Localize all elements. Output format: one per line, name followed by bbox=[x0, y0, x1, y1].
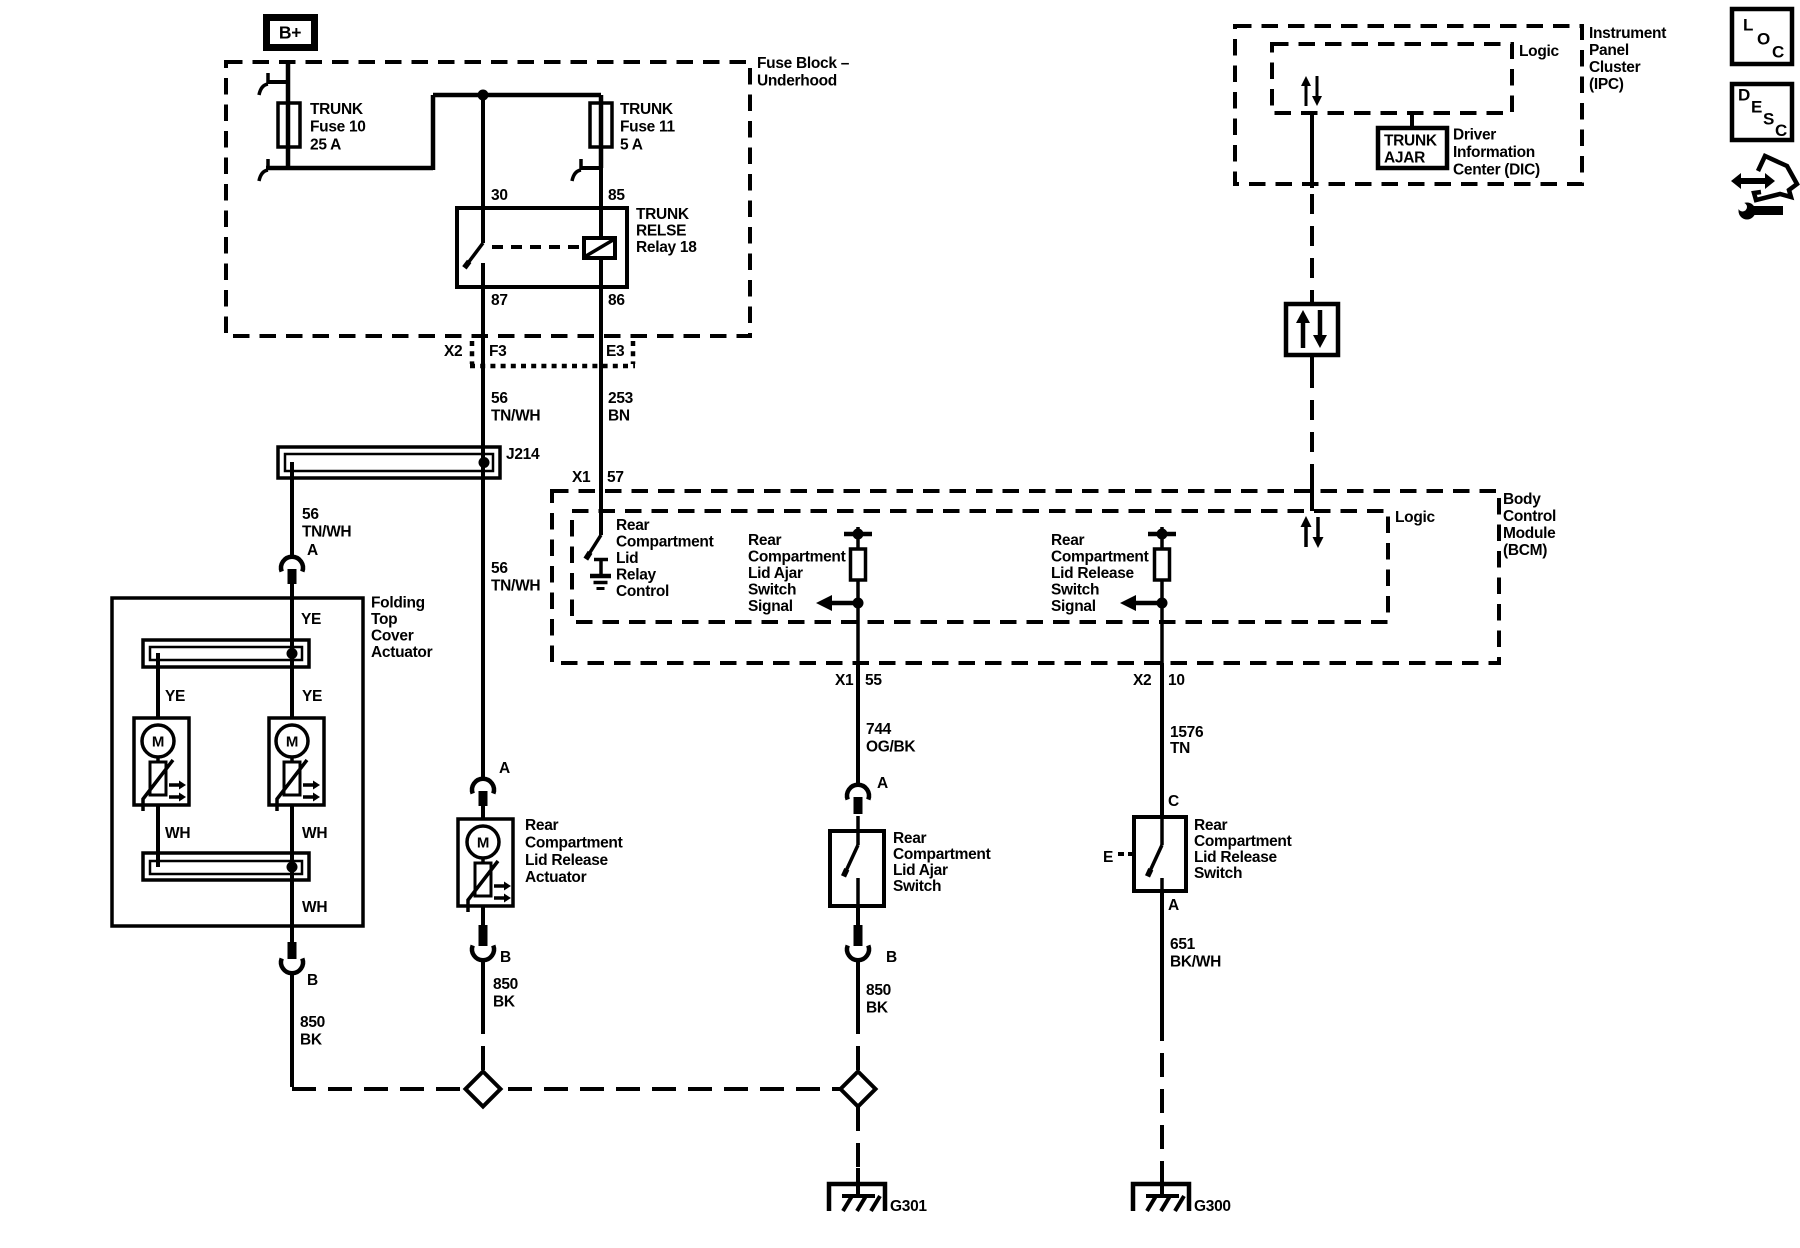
junction node pin30 feed bbox=[478, 90, 489, 101]
label wire 56 TN/WH upper bbox=[491, 390, 540, 425]
connector B ajar switch bbox=[847, 925, 897, 966]
svg-text:Control: Control bbox=[616, 583, 669, 600]
label Driver Information Center DIC bbox=[1453, 127, 1540, 179]
ground G300 bbox=[1133, 1168, 1189, 1211]
ipc logic dashed box bbox=[1272, 44, 1512, 113]
body control module dashed box bbox=[552, 491, 1499, 663]
label terminal E and dashed link bbox=[1103, 849, 1134, 866]
svg-text:J214: J214 bbox=[506, 446, 540, 463]
svg-text:Top: Top bbox=[371, 611, 397, 628]
svg-text:A: A bbox=[307, 542, 318, 559]
wire into folding top bbox=[290, 584, 294, 653]
fuse block underhood dashed box bbox=[226, 62, 750, 336]
icon freehand arrow bbox=[1731, 156, 1797, 200]
svg-text:B: B bbox=[886, 949, 897, 966]
label Rear Compartment Lid Relay Control bbox=[616, 517, 714, 600]
svg-text:BN: BN bbox=[608, 408, 630, 425]
svg-text:Compartment: Compartment bbox=[893, 846, 991, 863]
svg-text:E: E bbox=[1103, 849, 1113, 866]
svg-text:86: 86 bbox=[608, 292, 625, 309]
release switch contact bbox=[1160, 878, 1164, 891]
label YE left bbox=[165, 688, 185, 705]
relay coil bbox=[584, 238, 615, 258]
label pin 87 bbox=[491, 292, 508, 309]
svg-text:Driver: Driver bbox=[1453, 127, 1496, 144]
label Rear Compartment Lid Release Actuator bbox=[525, 817, 623, 886]
label X1 pin 57 bbox=[572, 469, 624, 486]
label 850 BK center bbox=[493, 976, 518, 1011]
ajar switch contact bbox=[856, 878, 860, 906]
svg-text:S: S bbox=[1763, 109, 1774, 128]
svg-text:X1: X1 bbox=[835, 672, 854, 689]
label 850 BK right bbox=[866, 982, 891, 1017]
wire ajar switch to connector B bbox=[856, 906, 860, 925]
svg-text:WH: WH bbox=[165, 825, 190, 842]
svg-text:Actuator: Actuator bbox=[371, 644, 433, 661]
svg-text:Lid Release: Lid Release bbox=[1194, 849, 1278, 866]
bcm relay control switch blade bbox=[586, 535, 601, 559]
svg-text:WH: WH bbox=[302, 825, 327, 842]
label terminal A release switch bbox=[1168, 897, 1179, 914]
svg-text:YE: YE bbox=[165, 688, 185, 705]
label G300 bbox=[1194, 1198, 1231, 1215]
svg-text:X2: X2 bbox=[444, 343, 462, 360]
svg-text:Compartment: Compartment bbox=[525, 834, 623, 851]
svg-text:B: B bbox=[307, 972, 318, 989]
wire release switch ground lead bbox=[1160, 891, 1164, 1168]
wire ajar switch ground lead bbox=[856, 959, 860, 1071]
svg-text:Compartment: Compartment bbox=[1194, 833, 1292, 850]
rear compartment lid ajar switch box bbox=[830, 831, 884, 906]
svg-text:A: A bbox=[877, 775, 888, 792]
wire J214 left leg bbox=[290, 462, 294, 556]
wire fuse10 to riser bbox=[266, 166, 433, 171]
svg-text:Relay: Relay bbox=[616, 567, 657, 584]
svg-text:Panel: Panel bbox=[1589, 42, 1629, 59]
svg-text:Lid Release: Lid Release bbox=[525, 852, 609, 869]
label Fuse Block - Underhood bbox=[757, 55, 850, 90]
connector A ajar switch bbox=[847, 775, 888, 814]
svg-text:850: 850 bbox=[300, 1014, 325, 1031]
svg-text:56: 56 bbox=[302, 506, 319, 523]
ajar switch blade bbox=[844, 845, 859, 876]
fuse TRUNK Fuse 10 25A bbox=[278, 101, 366, 153]
label wire 651 BK/WH bbox=[1170, 936, 1221, 971]
wire B+ to fuse 10 bbox=[286, 62, 291, 168]
wire folding top to splice corner bbox=[290, 972, 294, 1087]
label terminal E3 bbox=[606, 343, 625, 360]
rear compartment lid release switch box bbox=[1134, 817, 1186, 891]
svg-text:85: 85 bbox=[608, 187, 625, 204]
svg-text:Relay 18: Relay 18 bbox=[636, 239, 697, 256]
svg-text:56: 56 bbox=[491, 390, 508, 407]
bcm lid ajar switch signal input bbox=[816, 527, 872, 663]
label Logic IPC bbox=[1519, 43, 1560, 60]
icon DESC box bbox=[1732, 84, 1792, 140]
svg-text:Switch: Switch bbox=[1194, 865, 1242, 882]
svg-text:87: 87 bbox=[491, 292, 508, 309]
svg-text:A: A bbox=[499, 760, 510, 777]
bcm logic dashed box bbox=[572, 511, 1388, 622]
label pin 86 bbox=[608, 292, 625, 309]
svg-text:B: B bbox=[500, 949, 511, 966]
svg-text:(IPC): (IPC) bbox=[1589, 76, 1624, 93]
svg-text:OG/BK: OG/BK bbox=[866, 739, 916, 756]
label pin 85 bbox=[608, 187, 625, 204]
svg-text:Rear: Rear bbox=[748, 532, 782, 549]
fuse 11 bottom clip bbox=[572, 159, 601, 181]
svg-text:WH: WH bbox=[302, 899, 327, 916]
svg-text:Rear: Rear bbox=[893, 830, 927, 847]
label Logic BCM bbox=[1395, 509, 1436, 526]
svg-text:C: C bbox=[1775, 121, 1787, 140]
svg-text:Logic: Logic bbox=[1519, 43, 1560, 60]
svg-text:Switch: Switch bbox=[1051, 582, 1099, 599]
relay internal dashed link bbox=[492, 245, 584, 249]
folding top lower bus bar bbox=[143, 853, 309, 880]
instrument panel cluster dashed box bbox=[1235, 26, 1582, 184]
svg-text:Body: Body bbox=[1503, 491, 1541, 508]
wire right motor to lower bus bbox=[290, 805, 294, 872]
svg-text:Rear: Rear bbox=[1194, 817, 1228, 834]
label YE top bbox=[301, 611, 321, 628]
bcm relay control ground bbox=[590, 559, 611, 589]
label Rear Compartment Lid Release Switch Signal bbox=[1051, 532, 1149, 615]
svg-text:10: 10 bbox=[1168, 672, 1185, 689]
serial data symbol box bbox=[1286, 290, 1338, 368]
svg-text:BK: BK bbox=[300, 1032, 323, 1049]
label 56 TN/WH left bbox=[302, 506, 351, 541]
wire bus to right motor bbox=[290, 653, 294, 718]
svg-text:56: 56 bbox=[491, 560, 508, 577]
svg-text:Fuse 10: Fuse 10 bbox=[310, 119, 366, 136]
svg-text:YE: YE bbox=[302, 688, 322, 705]
label wire 1576 TN bbox=[1170, 724, 1204, 757]
svg-text:X1: X1 bbox=[572, 469, 591, 486]
wire left motor to lower bus bbox=[156, 805, 160, 867]
svg-text:RELSE: RELSE bbox=[636, 223, 686, 240]
svg-text:TRUNK: TRUNK bbox=[310, 101, 364, 118]
svg-text:55: 55 bbox=[865, 672, 882, 689]
bcm serial data entry bbox=[1310, 479, 1314, 511]
icon LOC box bbox=[1732, 9, 1792, 64]
svg-text:Fuse Block –: Fuse Block – bbox=[757, 55, 850, 72]
fuse 10 top clip bbox=[259, 73, 288, 95]
svg-text:M: M bbox=[152, 734, 164, 751]
svg-text:Signal: Signal bbox=[748, 598, 793, 615]
label YE right bbox=[302, 688, 322, 705]
svg-text:B+: B+ bbox=[279, 23, 301, 43]
label J214 bbox=[506, 446, 540, 463]
svg-text:E: E bbox=[1751, 97, 1762, 116]
wire feed to relay pin 30 bbox=[481, 95, 485, 243]
svg-text:25 A: 25 A bbox=[310, 136, 341, 153]
svg-text:Rear: Rear bbox=[1051, 532, 1085, 549]
label 850 BK left bbox=[300, 1014, 325, 1049]
svg-text:YE: YE bbox=[301, 611, 321, 628]
svg-text:Switch: Switch bbox=[748, 582, 796, 599]
wire ipc serial data down bbox=[1310, 113, 1314, 292]
svg-text:Signal: Signal bbox=[1051, 598, 1096, 615]
svg-text:E3: E3 bbox=[606, 343, 625, 360]
wire top feed to fuse 11 bbox=[433, 93, 601, 98]
svg-text:Actuator: Actuator bbox=[525, 869, 587, 886]
folding top upper bus bar bbox=[143, 640, 309, 667]
svg-text:AJAR: AJAR bbox=[1384, 149, 1425, 166]
bcm serial data arrows bbox=[1301, 516, 1324, 548]
svg-text:Logic: Logic bbox=[1395, 509, 1436, 526]
label Body Control Module BCM bbox=[1503, 491, 1556, 559]
svg-text:BK: BK bbox=[493, 994, 516, 1011]
label Rear Compartment Lid Release Switch bbox=[1194, 817, 1292, 882]
svg-text:M: M bbox=[286, 734, 298, 751]
wire connector A to actuator bbox=[481, 806, 485, 819]
label terminal F3 bbox=[489, 343, 507, 360]
wire ipc logic to trunk ajar bbox=[1410, 113, 1414, 130]
motor left folding top bbox=[134, 718, 189, 811]
label Instrument Panel Cluster IPC bbox=[1589, 25, 1666, 93]
splice diamond right bbox=[841, 1072, 876, 1107]
svg-text:30: 30 bbox=[491, 187, 508, 204]
wire serial data to bcm bbox=[1310, 368, 1314, 481]
svg-text:TN/WH: TN/WH bbox=[491, 578, 540, 595]
svg-text:Underhood: Underhood bbox=[757, 73, 837, 90]
svg-text:TRUNK: TRUNK bbox=[1384, 132, 1438, 149]
label terminal C bbox=[1168, 793, 1179, 810]
svg-text:57: 57 bbox=[607, 469, 624, 486]
svg-text:Lid Ajar: Lid Ajar bbox=[748, 565, 803, 582]
svg-text:Compartment: Compartment bbox=[748, 549, 846, 566]
svg-text:744: 744 bbox=[866, 721, 892, 738]
label X2 bbox=[444, 343, 462, 360]
label TRUNK RELSE Relay 18 bbox=[636, 206, 697, 256]
label Folding Top Cover Actuator bbox=[371, 595, 433, 662]
svg-text:651: 651 bbox=[1170, 936, 1196, 953]
fuse TRUNK Fuse 11 5A bbox=[590, 95, 675, 168]
label wire 744 OG/BK bbox=[866, 721, 916, 756]
wire bus to left motor bbox=[156, 653, 160, 718]
svg-text:Switch: Switch bbox=[893, 878, 941, 895]
label wire 253 BN bbox=[608, 390, 634, 425]
label Rear Compartment Lid Ajar Switch Signal bbox=[748, 532, 846, 615]
connector B folding top bbox=[281, 942, 318, 989]
svg-text:TRUNK: TRUNK bbox=[636, 206, 690, 223]
svg-text:Fuse 11: Fuse 11 bbox=[620, 119, 675, 136]
svg-text:Cluster: Cluster bbox=[1589, 59, 1641, 76]
svg-text:Rear: Rear bbox=[525, 817, 559, 834]
svg-text:Cover: Cover bbox=[371, 628, 414, 645]
ipc logic serial arrows bbox=[1301, 76, 1322, 106]
svg-text:Module: Module bbox=[1503, 525, 1556, 542]
relay TRUNK RELSE Relay 18 box bbox=[457, 208, 627, 287]
label pin 30 bbox=[491, 187, 508, 204]
svg-text:BK/WH: BK/WH bbox=[1170, 954, 1221, 971]
motor right folding top bbox=[269, 718, 324, 811]
ground G301 bbox=[829, 1168, 885, 1211]
rear compartment lid release actuator bbox=[458, 819, 513, 912]
label X2 pin 10 bbox=[1133, 672, 1185, 689]
svg-text:Control: Control bbox=[1503, 508, 1556, 525]
svg-text:TN: TN bbox=[1170, 740, 1190, 757]
svg-text:O: O bbox=[1757, 29, 1770, 48]
wire J214 to release actuator bbox=[481, 462, 485, 777]
svg-text:1576: 1576 bbox=[1170, 724, 1204, 741]
label Rear Compartment Lid Ajar Switch bbox=[893, 830, 991, 895]
svg-text:C: C bbox=[1168, 793, 1179, 810]
connector A folding top bbox=[281, 542, 318, 584]
wire riser bbox=[431, 95, 436, 170]
svg-text:5 A: 5 A bbox=[620, 136, 643, 153]
svg-text:M: M bbox=[477, 835, 489, 852]
svg-text:TRUNK: TRUNK bbox=[620, 101, 674, 118]
wire splice to G301 bbox=[856, 1107, 860, 1168]
splice J214 bbox=[278, 447, 500, 478]
icon wrench bbox=[1738, 203, 1783, 220]
svg-text:Information: Information bbox=[1453, 144, 1535, 161]
svg-text:Rear: Rear bbox=[616, 517, 650, 534]
splice bus dashed horizontal bbox=[292, 1087, 858, 1091]
svg-text:G301: G301 bbox=[890, 1198, 927, 1215]
label WH right bbox=[302, 825, 327, 842]
svg-text:Lid Release: Lid Release bbox=[1051, 565, 1135, 582]
fuse 10 bottom clip bbox=[259, 159, 268, 181]
svg-text:850: 850 bbox=[866, 982, 891, 999]
release switch blade bbox=[1148, 845, 1163, 876]
wire actuator to connector B bbox=[481, 906, 485, 925]
wire connector A to ajar switch bbox=[856, 816, 860, 845]
release switch wire in bbox=[1160, 817, 1164, 845]
connector B release actuator bbox=[472, 925, 511, 966]
splice diamond left bbox=[466, 1072, 501, 1107]
svg-text:C: C bbox=[1772, 42, 1784, 61]
wire fuse 11 to relay pin 85 and BCM X1-57 bbox=[599, 168, 603, 535]
wire relay pin 87 to J214 bbox=[481, 287, 485, 462]
relay switch fixed contact bbox=[481, 263, 485, 287]
svg-text:TN/WH: TN/WH bbox=[302, 524, 351, 541]
label wire 56 TN/WH mid bbox=[491, 560, 540, 595]
svg-text:X2: X2 bbox=[1133, 672, 1151, 689]
svg-text:850: 850 bbox=[493, 976, 518, 993]
svg-text:A: A bbox=[1168, 897, 1179, 914]
svg-text:Folding: Folding bbox=[371, 595, 425, 612]
label X1 pin 55 bbox=[835, 672, 882, 689]
svg-text:Lid: Lid bbox=[616, 550, 638, 567]
svg-text:TN/WH: TN/WH bbox=[491, 408, 540, 425]
label WH bottom bbox=[302, 899, 327, 916]
svg-text:Compartment: Compartment bbox=[1051, 549, 1149, 566]
inline connector X2 ticks and edge bbox=[470, 341, 635, 366]
svg-text:BK: BK bbox=[866, 1000, 889, 1017]
svg-text:Compartment: Compartment bbox=[616, 534, 714, 551]
svg-text:G300: G300 bbox=[1194, 1198, 1231, 1215]
indicator TRUNK AJAR box bbox=[1378, 128, 1447, 168]
wire folding top output bbox=[290, 872, 294, 942]
wire release actuator ground lead bbox=[481, 959, 485, 1071]
svg-text:Lid Ajar: Lid Ajar bbox=[893, 862, 948, 879]
svg-text:D: D bbox=[1738, 85, 1750, 104]
wire bcm to lid release switch bbox=[1160, 663, 1164, 817]
label G301 bbox=[890, 1198, 927, 1215]
bcm lid release switch signal input bbox=[1120, 527, 1176, 663]
label WH left bbox=[165, 825, 190, 842]
svg-text:F3: F3 bbox=[489, 343, 507, 360]
connector A release actuator bbox=[472, 760, 510, 806]
wire bcm to lid ajar switch bbox=[856, 663, 860, 785]
battery feed terminal B+ bbox=[267, 18, 315, 48]
folding top cover actuator box bbox=[112, 598, 363, 926]
svg-text:253: 253 bbox=[608, 390, 634, 407]
svg-text:L: L bbox=[1743, 15, 1753, 34]
svg-text:Instrument: Instrument bbox=[1589, 25, 1666, 42]
svg-text:Center (DIC): Center (DIC) bbox=[1453, 162, 1540, 179]
svg-text:(BCM): (BCM) bbox=[1503, 542, 1547, 559]
relay switch blade bbox=[464, 243, 483, 268]
